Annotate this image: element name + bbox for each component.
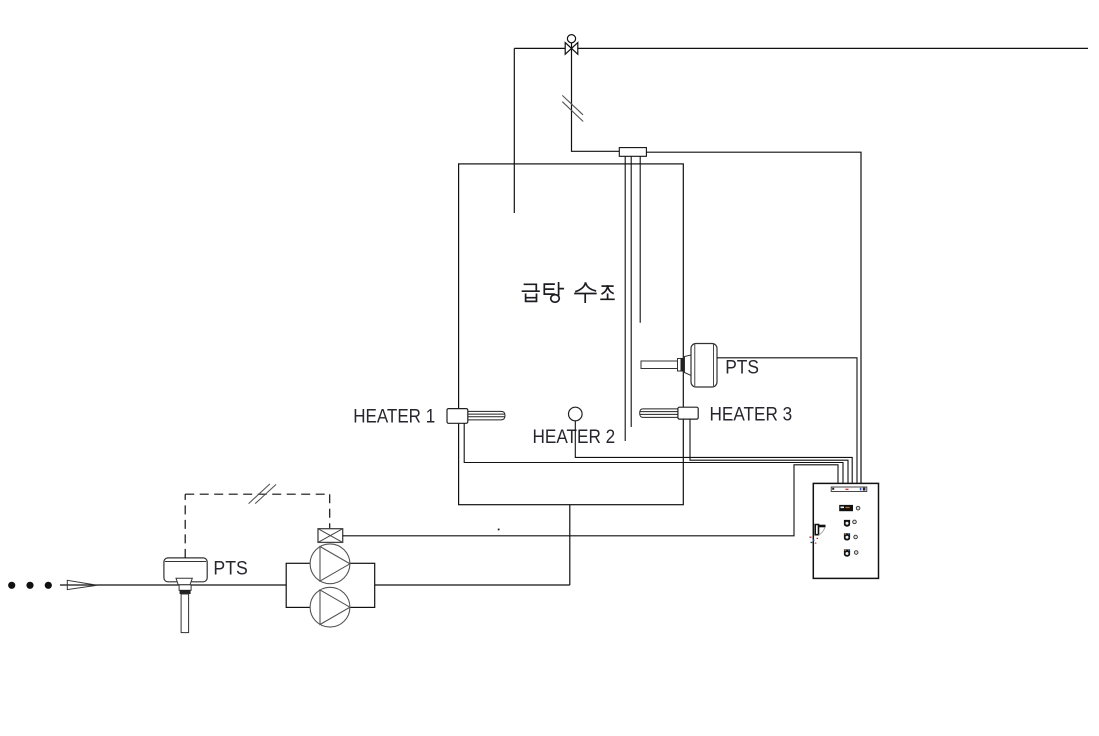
svg-text:PTS: PTS: [725, 357, 759, 378]
svg-text:PTS: PTS: [213, 558, 247, 579]
svg-text:HEATER 3: HEATER 3: [710, 405, 793, 426]
svg-text:HEATER 1: HEATER 1: [353, 406, 435, 427]
svg-text:HEATER 2: HEATER 2: [533, 427, 616, 448]
